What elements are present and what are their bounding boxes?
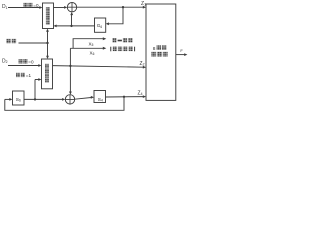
- wire Z2 box2 output to encoder: [53, 66, 144, 68]
- wire G6 output to box1: [56, 25, 95, 27]
- label box1 vertical text: [46, 7, 50, 11]
- label zhiwei left (CJK blobs): [6, 39, 11, 43]
- arrowhead into adder2 left: [62, 98, 65, 101]
- label encoder line2 (CJK blobs): [151, 52, 156, 57]
- wire zhiwei down to box2 top: [47, 43, 49, 57]
- junction dot feedback adder1: [70, 25, 72, 27]
- svg-text:D1: D1: [2, 4, 8, 10]
- junction dot zhiwei1 tap: [34, 98, 36, 100]
- svg-text:Z2: Z2: [140, 61, 145, 67]
- adder1 xor circle: [67, 3, 76, 12]
- wire feedback bottom bus: [5, 97, 124, 111]
- wire D2 input: [8, 65, 39, 67]
- label note line1 (CJK blobs): [112, 38, 116, 42]
- label note line2 (CJK blobs): [110, 47, 111, 52]
- wire encoder output F: [176, 54, 185, 56]
- arrowhead up into box1 bottom: [46, 29, 49, 32]
- arrowhead down into adder2: [69, 92, 72, 95]
- wire D1 input: [8, 7, 40, 9]
- arrowhead into S6: [9, 98, 12, 101]
- svg-text:X6: X6: [90, 50, 95, 56]
- label zhiwei=0 bottom (CJK blobs): [19, 59, 23, 63]
- box S4 delay: [94, 91, 106, 103]
- arrowhead X6: [103, 47, 107, 50]
- box2 serial converter bottom: [42, 59, 53, 89]
- svg-text:G6: G6: [97, 23, 103, 29]
- arrowhead into box1 left: [39, 6, 42, 9]
- arrowhead into encoder Z2: [143, 66, 146, 69]
- svg-text:=0: =0: [28, 59, 34, 64]
- wire Z1 adder1 to encoder: [77, 6, 144, 8]
- arrowhead into encoder Z1: [143, 6, 146, 9]
- arrowhead into adder1 left: [64, 6, 67, 9]
- wire S6 input stub: [5, 98, 11, 100]
- svg-text:Z1: Z1: [141, 1, 146, 7]
- arrowhead into box1 right from G6: [53, 25, 56, 28]
- wire adder2 output to S4: [75, 97, 93, 99]
- box 8-level encoder: [146, 4, 176, 100]
- arrowhead encoder output F: [184, 53, 187, 56]
- arrowhead down into box2 top: [46, 56, 49, 59]
- svg-text:=0: =0: [33, 3, 39, 8]
- svg-text:S4: S4: [98, 97, 103, 103]
- label zhiwei=0 top (CJK blobs): [24, 3, 28, 7]
- arrowhead X5: [103, 37, 107, 40]
- wire feedback up into adder1: [71, 14, 73, 26]
- arrowhead into encoder Z4: [143, 95, 146, 98]
- svg-text:X5: X5: [89, 41, 94, 47]
- label box2 vertical text: [45, 64, 49, 68]
- svg-text:D2: D2: [2, 58, 8, 64]
- wire Z1 tap down to G6: [108, 7, 124, 24]
- arrowhead into S4: [91, 96, 94, 99]
- wire S6 output to adder2: [24, 98, 64, 100]
- arrowhead into box2 left wire1: [38, 64, 41, 67]
- label zhiwei=1 (CJK blobs): [16, 73, 20, 77]
- svg-text:8: 8: [153, 46, 156, 52]
- wire zhiwei horizontal: [19, 42, 48, 44]
- svg-text:Z4: Z4: [138, 90, 143, 96]
- junction dot zhiwei split: [46, 42, 48, 44]
- arrowhead into box2 left wire2: [38, 78, 41, 81]
- wire zhiwei=1 stub into box2: [35, 79, 39, 81]
- svg-text:=1: =1: [26, 73, 32, 78]
- wire tap from S-line up to zhiwei=1: [34, 80, 36, 100]
- adder2 xor circle: [65, 95, 74, 104]
- junction dot Z2 tap: [69, 65, 71, 67]
- wire vertical tap down to adder2: [69, 48, 71, 93]
- adder2 plus: [65, 95, 74, 104]
- box S6 delay: [13, 91, 25, 105]
- box G6 delay: [95, 18, 106, 32]
- svg-text:F: F: [180, 48, 183, 53]
- wire zhiwei up to box1 bottom: [47, 31, 49, 44]
- wire X6 stub: [70, 47, 103, 49]
- arrowhead into G6 right: [106, 22, 109, 25]
- wire Z4 S4 output to encoder: [106, 96, 144, 98]
- adder1 plus: [67, 3, 76, 12]
- arrowhead up into adder1: [70, 12, 73, 15]
- wire X5 stub: [73, 39, 103, 49]
- junction dot Z1 tap: [122, 6, 124, 8]
- wire box1 to adder1: [54, 7, 66, 9]
- svg-text:S6: S6: [16, 97, 21, 103]
- box1 serial converter top: [43, 3, 54, 29]
- junction dot Z4 tap: [123, 96, 125, 98]
